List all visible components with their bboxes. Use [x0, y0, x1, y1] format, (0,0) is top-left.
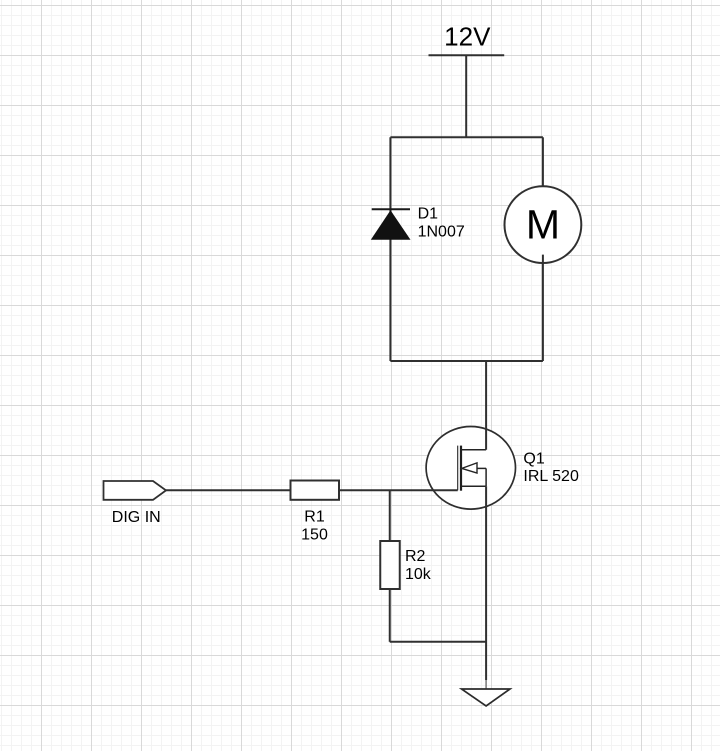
label D1 1N007 — [418, 206, 465, 241]
wire junction to R2 — [389, 490, 391, 541]
wire loop bottom — [390, 360, 543, 362]
label Q1 IRL 520 — [523, 450, 579, 485]
svg-text:M: M — [526, 201, 560, 247]
wire right branch lower (motor to loop bottom) — [542, 255, 544, 361]
ground — [462, 689, 511, 706]
wire flag to R1 — [166, 489, 291, 491]
wire source to ground — [485, 486, 487, 689]
label 12V — [444, 22, 491, 52]
wire drain (loop bottom to Q1) — [485, 361, 487, 450]
svg-text:12V: 12V — [444, 22, 491, 52]
svg-text:R2: R2 — [405, 548, 426, 565]
wire bottom horizontal — [390, 641, 486, 643]
wire left branch (through D1) — [389, 137, 391, 361]
svg-text:R1: R1 — [304, 509, 325, 526]
diode D1 — [371, 209, 411, 240]
motor M — [505, 186, 582, 263]
svg-text:IRL 520: IRL 520 — [523, 468, 579, 485]
power symbol 12V — [429, 54, 505, 56]
input flag DIG IN — [104, 481, 167, 500]
wire loop top — [390, 136, 543, 138]
label DIG IN — [112, 509, 161, 526]
wire right branch upper (to motor) — [542, 137, 544, 187]
svg-text:150: 150 — [301, 527, 328, 544]
transistor Q1 — [426, 427, 515, 510]
svg-text:Q1: Q1 — [523, 450, 544, 467]
svg-text:10k: 10k — [405, 566, 432, 583]
resistor R1 — [291, 481, 340, 500]
wire 12V to loop top — [465, 55, 467, 137]
label R2 10k — [405, 548, 432, 583]
wire R1 to gate — [339, 489, 458, 491]
label R1 150 — [301, 509, 328, 544]
svg-text:D1: D1 — [418, 206, 439, 223]
wire R2 down — [389, 589, 391, 642]
resistor R2 — [380, 541, 400, 589]
svg-text:1N007: 1N007 — [418, 223, 465, 240]
svg-text:DIG IN: DIG IN — [112, 509, 161, 526]
